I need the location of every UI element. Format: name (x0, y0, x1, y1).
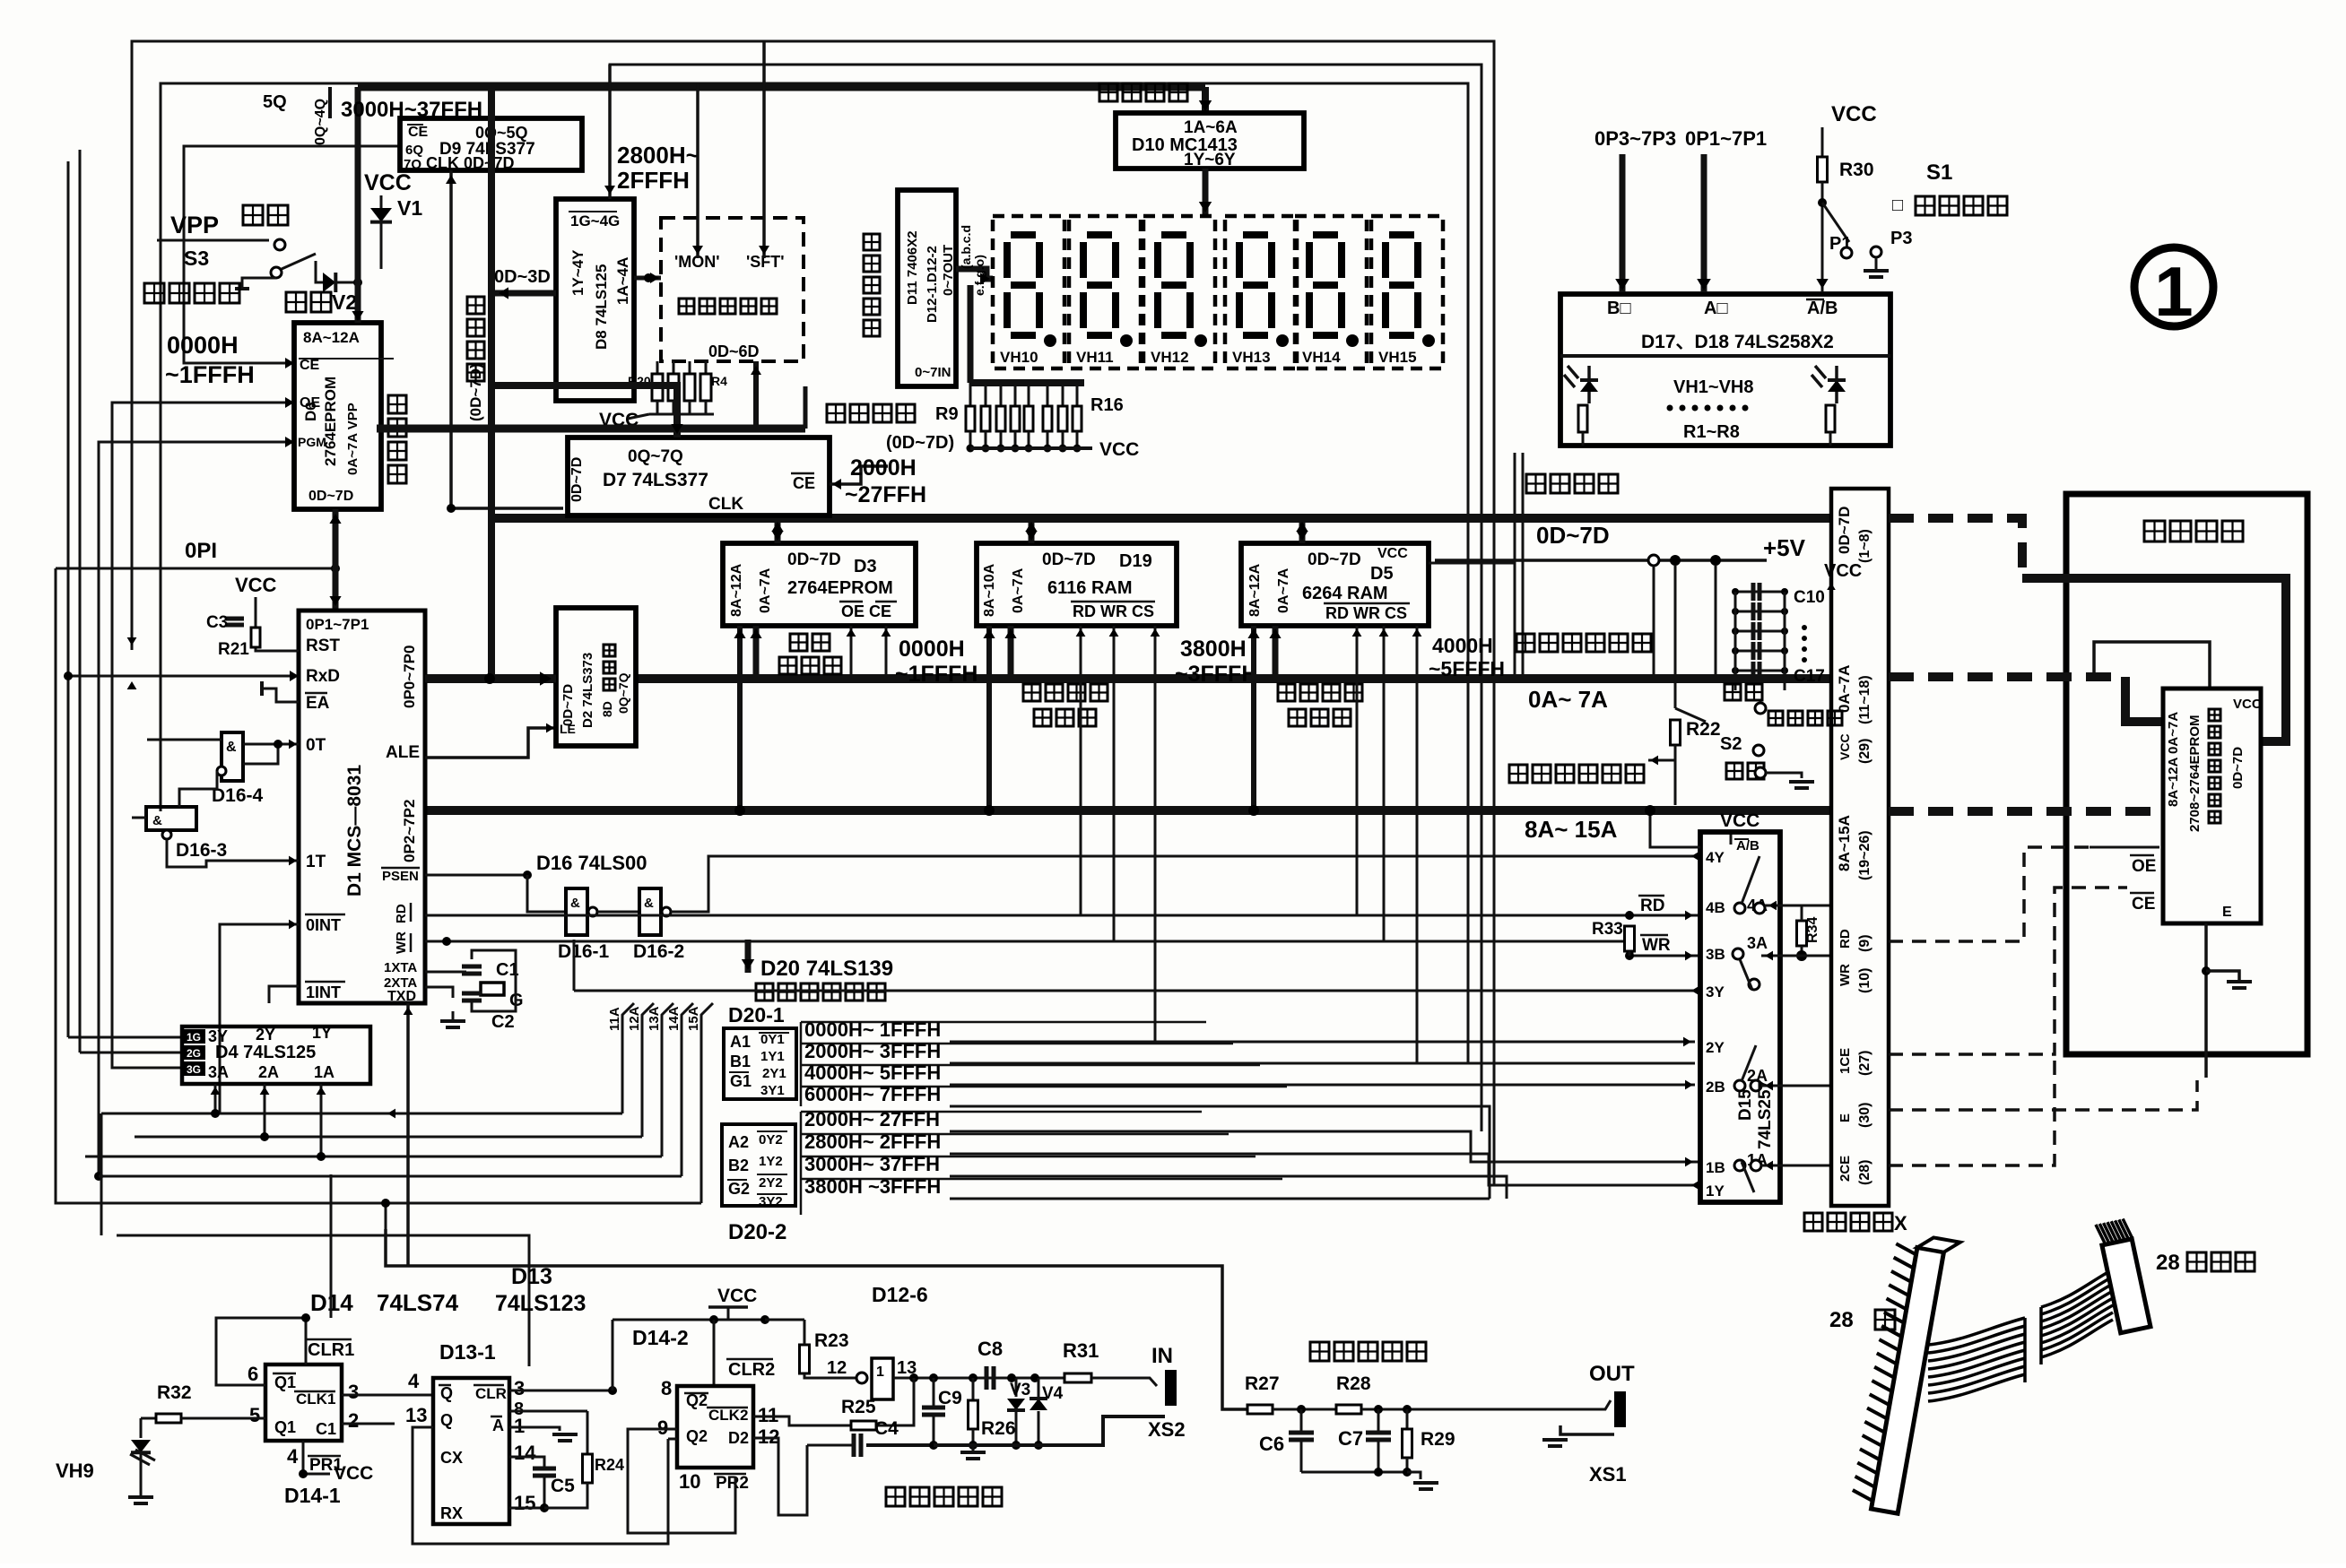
svg-text:0D~7D: 0D~7D (1042, 550, 1096, 569)
svg-text:1A~4A: 1A~4A (614, 257, 631, 305)
svg-text:R24: R24 (595, 1456, 624, 1474)
svg-text:CLK: CLK (708, 495, 743, 514)
bus data 0D~7D horizontal (488, 514, 1831, 523)
svg-text:D3: D3 (854, 557, 877, 576)
svg-text:0D~6D: 0D~6D (708, 342, 760, 360)
svg-text:VCC: VCC (235, 574, 277, 596)
wire ALE to D2 (425, 728, 556, 758)
svg-text:&: & (152, 813, 162, 828)
led right in D17 box (1835, 366, 1838, 403)
svg-text:3A: 3A (208, 1063, 229, 1081)
svg-text:0P1~7P1: 0P1~7P1 (306, 616, 369, 633)
svg-text:D16-4: D16-4 (212, 785, 264, 806)
wire pin12 to inverter (753, 1438, 807, 1515)
svg-text:X: X (1894, 1212, 1907, 1234)
svg-text:1CE: 1CE (1838, 1048, 1853, 1074)
svg-text:1Y~4Y: 1Y~4Y (569, 249, 586, 296)
svg-text:RD WR CS: RD WR CS (1073, 602, 1154, 620)
svg-text:RxD: RxD (306, 667, 340, 686)
svg-text:(30): (30) (1857, 1103, 1872, 1128)
svg-text:Q1: Q1 (274, 1373, 296, 1391)
svg-text:14: 14 (514, 1442, 536, 1464)
svg-text:S3: S3 (184, 247, 209, 270)
svg-text:D15: D15 (1736, 1089, 1755, 1121)
svg-text:2Y: 2Y (256, 1026, 275, 1044)
svg-text:VH11: VH11 (1076, 349, 1114, 366)
wire address taps 0A~7A (753, 626, 760, 679)
svg-text:(9): (9) (1857, 934, 1872, 952)
svg-text:28: 28 (2156, 1251, 2180, 1275)
resistor R24 (586, 1411, 589, 1454)
wire mesh decode outputs (950, 1041, 1695, 1044)
svg-text:OUT: OUT (1589, 1362, 1635, 1386)
flipflop D14-2 Q2 (677, 1386, 753, 1468)
svg-text:G1: G1 (730, 1072, 752, 1090)
svg-text:0D~7D: 0D~7D (1836, 507, 1853, 554)
wire 2A from strip (1761, 1085, 1831, 1087)
svg-text:(27): (27) (1857, 1051, 1872, 1076)
wire WR long (425, 941, 1700, 956)
svg-text:+5V: +5V (1763, 534, 1806, 561)
svg-text:D16 74LS00: D16 74LS00 (536, 852, 647, 874)
svg-text:0Q~4Q: 0Q~4Q (313, 99, 328, 145)
svg-text:1INT: 1INT (306, 983, 341, 1001)
svg-text:CE: CE (408, 125, 429, 140)
svg-text:R29: R29 (1421, 1429, 1455, 1450)
svg-text:0000H: 0000H (899, 637, 965, 662)
svg-text:3Y1: 3Y1 (760, 1083, 785, 1098)
svg-text:A/B: A/B (1736, 838, 1759, 853)
svg-text:0Y2: 0Y2 (759, 1132, 783, 1148)
svg-text:Q: Q (440, 1411, 453, 1429)
svg-text:3G: 3G (187, 1063, 201, 1076)
svg-text:D17、D18 74LS258X2: D17、D18 74LS258X2 (1641, 332, 1834, 352)
mux D17 D18 74LS258 (1560, 294, 1890, 446)
wire XS2 sleeve (934, 1416, 1165, 1445)
svg-text:VH13: VH13 (1232, 349, 1271, 366)
wire MON line (696, 83, 699, 258)
label row outlines D20-1 (801, 1021, 1206, 1024)
svg-text:0INT: 0INT (306, 916, 341, 934)
svg-text:8A~10A: 8A~10A (982, 563, 997, 617)
svg-text:0D~7D: 0D~7D (308, 489, 353, 504)
svg-text:VCC: VCC (334, 1463, 373, 1484)
svg-text:0A~7A: 0A~7A (1276, 567, 1291, 613)
svg-text:2Y1: 2Y1 (762, 1066, 786, 1081)
svg-text:(19~26): (19~26) (1857, 830, 1872, 880)
wire D4 row returns (84, 1161, 86, 1163)
svg-text:E: E (2222, 905, 2232, 920)
svg-text:2800H~ 2FFFH: 2800H~ 2FFFH (804, 1131, 941, 1153)
svg-text:0PI: 0PI (185, 539, 217, 563)
VCC rail for D14-2 (613, 1319, 765, 1321)
svg-text:3A: 3A (1747, 934, 1768, 952)
svg-text:VPP: VPP (170, 212, 219, 238)
wire RD long (425, 914, 1700, 917)
svg-text:XS2: XS2 (1148, 1418, 1186, 1441)
svg-text:D14-1: D14-1 (284, 1484, 341, 1507)
display VH13 digit (1225, 216, 1297, 368)
svg-text:0Q~7Q: 0Q~7Q (616, 672, 630, 714)
wire bottom-left address bundle (101, 1113, 622, 1115)
display VH14 digit (1295, 216, 1367, 368)
svg-text:~1FFFH: ~1FFFH (165, 361, 255, 388)
wire D11 to displays (956, 269, 993, 279)
svg-text:R27: R27 (1245, 1373, 1280, 1394)
svg-text:6: 6 (248, 1363, 258, 1385)
svg-text:5Q: 5Q (263, 92, 287, 112)
bus dashed data to app (1889, 518, 2022, 578)
svg-text:E: E (1838, 1113, 1853, 1122)
svg-text:D8 74LS125: D8 74LS125 (593, 264, 610, 350)
svg-text:C3: C3 (206, 613, 228, 632)
cpu D1 MCS-8031 (299, 611, 425, 1003)
svg-text:1G~4G: 1G~4G (570, 212, 620, 230)
svg-text:R25: R25 (841, 1397, 876, 1417)
svg-text:8A~ 15A: 8A~ 15A (1525, 816, 1618, 843)
svg-text:(0D~7D): (0D~7D) (467, 363, 484, 421)
svg-text:3000H~ 37FFH: 3000H~ 37FFH (804, 1153, 940, 1175)
svg-text:15: 15 (514, 1492, 535, 1514)
latch D7 74LS377 (568, 437, 830, 515)
wire EA tie (262, 689, 299, 702)
svg-text:RD: RD (1640, 897, 1664, 915)
svg-text:D13: D13 (511, 1264, 552, 1289)
resistor R28 (1336, 1405, 1361, 1414)
svg-text:R23: R23 (814, 1330, 849, 1351)
capacitor C7 (1377, 1409, 1380, 1433)
svg-text:0A~ 7A: 0A~ 7A (1528, 686, 1608, 713)
resistor R31 (1064, 1373, 1091, 1382)
svg-text:C9: C9 (938, 1388, 962, 1408)
svg-text:D20-1: D20-1 (728, 1003, 785, 1027)
svg-text:RD: RD (1838, 929, 1853, 949)
wire 3A from strip (1761, 955, 1831, 957)
wire RXD line (68, 675, 299, 678)
resistor R22 (1671, 720, 1681, 745)
wire PGM line (99, 442, 294, 1176)
svg-text:B1: B1 (730, 1053, 751, 1070)
svg-text:~1FFFH: ~1FFFH (895, 662, 977, 687)
svg-text:2000H: 2000H (850, 455, 917, 481)
wire C1 pin2 (342, 1423, 395, 1425)
svg-text:CE: CE (300, 358, 320, 373)
svg-text:C8: C8 (977, 1338, 1003, 1360)
eprom D3 2764 (723, 543, 916, 626)
svg-text:5: 5 (249, 1404, 260, 1426)
ribbon cable left (1928, 1318, 2025, 1345)
svg-text:0P0~7P0: 0P0~7P0 (401, 645, 418, 708)
wire 4Y line (671, 856, 1700, 912)
svg-text:14A: 14A (666, 1006, 682, 1031)
svg-text:C10: C10 (1794, 588, 1825, 607)
wire RD/WR/CS verticals D19 (1080, 626, 1082, 915)
svg-text:10: 10 (679, 1470, 700, 1493)
svg-text:2708~2764EPROM: 2708~2764EPROM (2187, 715, 2203, 832)
svg-text:VCC: VCC (2233, 697, 2262, 712)
svg-text:D6: D6 (302, 402, 319, 421)
svg-text:&: & (226, 740, 237, 755)
label read tape (886, 1487, 905, 1506)
driver D10 MC1413 (1116, 113, 1304, 169)
bus dashed high addr to app (1889, 807, 2163, 816)
wire 1A from strip (1761, 1165, 1831, 1167)
svg-text:3800H ~3FFFH: 3800H ~3FFFH (804, 1175, 941, 1198)
svg-text:0A~7A: 0A~7A (758, 567, 773, 613)
svg-text:WR: WR (1642, 936, 1671, 955)
wire D9 second clk (488, 87, 495, 170)
diode V2 (316, 261, 323, 282)
wire D9 CLK input (449, 170, 453, 508)
svg-text:0P1~7P1: 0P1~7P1 (1685, 127, 1767, 150)
svg-text:8A~15A: 8A~15A (1836, 815, 1853, 871)
resistor R25 (807, 1425, 851, 1427)
svg-text:2000H~ 3FFFH: 2000H~ 3FFFH (804, 1040, 941, 1062)
svg-text:0D~3D: 0D~3D (494, 267, 551, 287)
wire SFT line (762, 41, 766, 258)
svg-text:0D~7D: 0D~7D (560, 684, 576, 726)
svg-text:3: 3 (514, 1377, 525, 1399)
gate D16-3 (146, 807, 196, 830)
svg-text:2800H~: 2800H~ (617, 142, 699, 169)
wire E ground (2204, 923, 2208, 1078)
svg-text:0A~7A VPP: 0A~7A VPP (345, 403, 361, 475)
svg-text:2A: 2A (258, 1063, 279, 1081)
svg-text:V3: V3 (1010, 1381, 1030, 1399)
resistor R29 (1406, 1409, 1409, 1429)
svg-text:R9: R9 (935, 404, 959, 424)
wire 0INT (220, 924, 299, 1113)
svg-text:0P2~7P2: 0P2~7P2 (401, 800, 418, 862)
svg-text:0P3~7P3: 0P3~7P3 (1594, 127, 1676, 150)
svg-text:D14-2: D14-2 (632, 1326, 689, 1349)
decoder D20-1 box (724, 1028, 796, 1099)
svg-text:R16: R16 (1090, 395, 1124, 415)
svg-text:1Y2: 1Y2 (759, 1154, 783, 1169)
svg-text:R30: R30 (1839, 160, 1874, 180)
wire to CLR1 (117, 1235, 529, 1366)
svg-text:VH15: VH15 (1378, 349, 1417, 366)
svg-text:V2: V2 (332, 290, 357, 314)
dashed E route (1889, 1080, 2197, 1110)
svg-text:C4: C4 (874, 1418, 899, 1439)
wire high addr taps 8A (737, 626, 743, 810)
svg-text:2FFFH: 2FFFH (617, 167, 690, 194)
connector emulation socket X (1831, 489, 1889, 1206)
keyboard 24-key dashed box (661, 218, 804, 361)
svg-text:4B: 4B (1706, 899, 1725, 916)
svg-text:R1~R8: R1~R8 (1683, 422, 1740, 442)
capacitor C9 (933, 1378, 935, 1408)
bus dashed low addr to app (1889, 672, 2125, 681)
svg-text:TXD: TXD (387, 989, 416, 1004)
svg-text:1Y1: 1Y1 (760, 1049, 785, 1064)
wire TXD to tape write (386, 1229, 1247, 1409)
svg-text:1: 1 (2154, 252, 2193, 331)
display VH10 digit (993, 216, 1064, 368)
connector 28-pin plug drawing (1850, 1232, 1960, 1516)
svg-text:0D~7D: 0D~7D (787, 550, 841, 569)
svg-text:A□: A□ (1704, 299, 1728, 318)
dashed RD route (1889, 847, 2090, 941)
wire top loop 3 (161, 83, 1468, 1063)
svg-text:13: 13 (405, 1404, 427, 1426)
svg-text:ALE: ALE (386, 743, 420, 762)
svg-text:0000H~ 1FFFH: 0000H~ 1FFFH (804, 1018, 941, 1041)
gate D16-4 (222, 732, 243, 781)
svg-text:D1 MCS—8031: D1 MCS—8031 (344, 765, 365, 897)
EPROM D6 programming socket (294, 323, 381, 509)
svg-text:11A: 11A (607, 1007, 622, 1031)
flipflop D14-1 (265, 1364, 342, 1441)
svg-text:6116 RAM: 6116 RAM (1047, 578, 1133, 598)
ribbon cable right (2041, 1269, 2113, 1307)
svg-text:VH9: VH9 (56, 1460, 94, 1482)
svg-text:A2: A2 (728, 1133, 749, 1151)
svg-text:0~7OUT: 0~7OUT (941, 245, 956, 296)
wire PSEN line long (527, 874, 1700, 876)
svg-text:0~7IN: 0~7IN (915, 365, 951, 380)
wire pin8/pin1 (509, 1410, 587, 1413)
svg-text:D16-1: D16-1 (558, 941, 610, 962)
svg-text:P3: P3 (1890, 229, 1912, 248)
svg-text:D7 74LS377: D7 74LS377 (603, 470, 708, 490)
svg-text:8A~12A 0A~7A: 8A~12A 0A~7A (2166, 712, 2181, 807)
wire keyboard data down (753, 361, 759, 429)
svg-text:2G: 2G (187, 1047, 201, 1060)
svg-text:0A~7A: 0A~7A (1011, 567, 1026, 613)
svg-text:C6: C6 (1259, 1433, 1284, 1455)
svg-text:D16-3: D16-3 (176, 840, 227, 861)
svg-text:R28: R28 (1336, 1373, 1371, 1394)
svg-text:D13-1: D13-1 (439, 1340, 496, 1364)
svg-text:2764EPROM: 2764EPROM (787, 578, 893, 598)
svg-text:0D~7D: 0D~7D (1308, 550, 1361, 569)
wire PR1 VCC (303, 1441, 330, 1474)
eprom socket box in app (2163, 689, 2261, 923)
svg-text:(0D~7D): (0D~7D) (886, 433, 954, 453)
wire D6 data out to CPU (333, 509, 339, 611)
svg-text:CX: CX (440, 1449, 463, 1467)
svg-text:CLR2: CLR2 (728, 1360, 775, 1380)
svg-text:1A: 1A (314, 1063, 335, 1081)
svg-text:VCC: VCC (1377, 546, 1408, 561)
svg-text:VH10: VH10 (1000, 349, 1038, 366)
svg-text:e.f.g.o): e.f.g.o) (972, 255, 986, 296)
svg-text:&: & (570, 896, 580, 911)
wire D13 pin3 up (509, 1390, 613, 1392)
crystal circuit C1 C2 G (425, 971, 466, 974)
svg-text:8A~12A: 8A~12A (729, 563, 744, 617)
svg-text:6264 RAM: 6264 RAM (1302, 584, 1388, 603)
svg-text:S2: S2 (1720, 734, 1742, 754)
svg-text:2000H~ 27FFH: 2000H~ 27FFH (804, 1108, 940, 1131)
svg-text:(a.b.c.d: (a.b.c.d (959, 225, 973, 269)
inverter bank D11 7406 (898, 190, 956, 386)
svg-text:3: 3 (348, 1381, 359, 1403)
svg-text:R26: R26 (981, 1418, 1016, 1439)
wire 3Y 2Y lines (574, 990, 1700, 992)
bus data vertical 0D~7D (488, 87, 495, 676)
bus segment select top (weixuan) (358, 83, 1205, 91)
svg-text:C7: C7 (1338, 1427, 1363, 1450)
wire 1INT stub (269, 986, 299, 1003)
svg-text:Q2: Q2 (686, 1427, 708, 1445)
svg-text:&: & (644, 896, 654, 911)
svg-text:PR2: PR2 (716, 1474, 749, 1493)
wire data bus taps to memories (775, 518, 781, 543)
svg-text:1G: 1G (187, 1031, 201, 1044)
svg-text:D11 7406X2: D11 7406X2 (905, 230, 920, 305)
svg-text:D16-2: D16-2 (633, 941, 684, 962)
svg-text:(11~18): (11~18) (1857, 675, 1872, 724)
svg-text:~5FFFH: ~5FFFH (1429, 657, 1505, 680)
svg-text:OE: OE (2132, 857, 2156, 876)
svg-text:C17: C17 (1794, 667, 1825, 686)
svg-text:D4 74LS125: D4 74LS125 (215, 1043, 316, 1062)
svg-text:WR: WR (1838, 964, 1853, 986)
wire OE line (112, 403, 294, 1068)
svg-text:CLK 0D~7D: CLK 0D~7D (426, 154, 515, 172)
label write tape (1310, 1342, 1329, 1361)
wire pin11 to R25 (753, 1416, 807, 1425)
svg-text:A1: A1 (730, 1033, 751, 1051)
wire D8 to keyboard (634, 276, 661, 281)
wire right channel pair (1514, 453, 1516, 681)
svg-text:R22: R22 (1686, 719, 1721, 740)
wire top loop 2 (610, 65, 1481, 1131)
svg-text:VH1~VH8: VH1~VH8 (1673, 377, 1754, 397)
wire 2800H line into D8 (608, 65, 612, 199)
led left in D17 box (1587, 366, 1591, 403)
svg-text:C2: C2 (491, 1012, 515, 1032)
svg-text:74LS74: 74LS74 (377, 1289, 459, 1316)
svg-text:12: 12 (827, 1358, 847, 1378)
svg-text:WR: WR (394, 931, 409, 954)
bus labels right (1526, 474, 1545, 493)
svg-text:2764EPROM: 2764EPROM (322, 377, 339, 466)
svg-text:7Q: 7Q (404, 157, 421, 172)
svg-text:2B: 2B (1706, 1079, 1725, 1096)
wire Q1 loop (216, 1318, 306, 1385)
svg-text:R34: R34 (1805, 917, 1820, 943)
resistor network R9-R16 (970, 379, 1084, 386)
wire CE 2000H (830, 466, 888, 484)
capacitor C4 (807, 1444, 854, 1447)
resistors R20..R4 keyboard pullups (656, 361, 659, 374)
capacitor C8 (985, 1366, 989, 1390)
resistor R32 (141, 1417, 156, 1420)
bus high address 8A~15A (425, 806, 1831, 815)
svg-text:3Y: 3Y (1706, 983, 1725, 1001)
svg-text:VCC: VCC (1831, 102, 1877, 126)
svg-text:VCC: VCC (717, 1286, 757, 1306)
svg-text:3800H: 3800H (1180, 637, 1247, 662)
svg-text:RX: RX (440, 1504, 463, 1522)
latch D9 74LS377 (400, 118, 582, 170)
svg-text:3000H~37FFH: 3000H~37FFH (341, 98, 482, 122)
svg-text:D20 74LS139: D20 74LS139 (760, 957, 893, 981)
svg-text:(29): (29) (1857, 739, 1872, 764)
wire D10 to displays (1203, 169, 1209, 216)
svg-text:4000H~ 5FFFH: 4000H~ 5FFFH (804, 1061, 941, 1084)
svg-text:1Y: 1Y (312, 1024, 332, 1042)
svg-text:0Q~5Q: 0Q~5Q (475, 124, 528, 142)
svg-text:0Y1: 0Y1 (760, 1032, 785, 1047)
svg-text:0D~7D: 0D~7D (1536, 522, 1610, 549)
svg-text:R21: R21 (218, 640, 249, 659)
svg-text:RD: RD (394, 904, 409, 923)
